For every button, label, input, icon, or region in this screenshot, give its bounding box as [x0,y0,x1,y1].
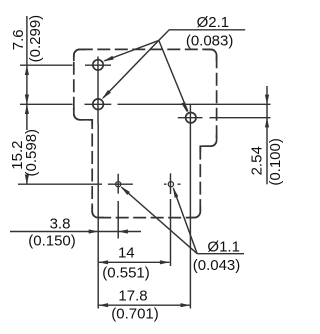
arrow 3.8 right (left-pointing) [118,229,128,233]
outline corner: top-right [205,49,217,61]
relay body outline (dashed) [74,49,217,217]
centerline row small holes [18,183,181,185]
hole H4 (small, left) [116,182,121,187]
arrow 15.2 top (up) [25,104,29,114]
svg-text:(0.299): (0.299) [27,15,44,63]
svg-text:14: 14 [118,244,135,261]
svg-text:(0.598): (0.598) [23,129,40,177]
leader underline Ø1.1 [197,253,244,255]
hole H2 (big, mid-left) [93,99,104,110]
arrow 7.6 top (up) [25,65,29,75]
dim line 3.8 (bottom) [10,231,141,233]
svg-text:7.6: 7.6 [10,29,27,50]
leader arrowhead at H3 [181,102,187,113]
extension column big holes for bottom dims [97,124,99,309]
leader arrowhead at H5 [173,187,179,198]
centerline column H1-H2 [97,57,99,125]
leader line to H1 [105,40,159,60]
dim line 17.8 (bottom) [98,304,190,306]
arrow 14 right [160,260,170,264]
centerline row H1 [20,64,111,66]
arrow 2.54 top (down) [265,95,269,105]
dim line 2.54 (right, vertical) [266,86,268,184]
outline corner: top-left [74,49,86,61]
arrow 3.8 left (right-pointing) [89,229,99,233]
svg-text:(0.150): (0.150) [28,233,76,250]
svg-text:(0.043): (0.043) [193,257,241,274]
centerline column H3 / extension 17.8 [189,104,191,308]
outline corner: right step [200,135,216,153]
centerline column H5 / extension 14 [170,173,172,266]
svg-text:2.54: 2.54 [249,146,266,175]
arrow 7.6 bottom (down) [25,95,29,105]
centerline row H2 [20,103,271,105]
leader arrowhead at H2 [102,90,111,99]
outline corner: bottom-right [189,206,201,218]
leader line to H3 [159,40,188,111]
leader line to H5 [173,188,197,253]
dim line 15.2 (left, vertical with text gap) [26,104,28,184]
leader line to H4 [122,187,198,254]
dim line 14 (bottom) [98,261,169,263]
arrow 2.54 bottom (up) [265,118,269,128]
svg-text:(0.551): (0.551) [102,264,150,281]
hole H1 (big, top-left) [93,60,103,70]
arrow 17.8 right [181,303,191,307]
hole H3 (big, right) [186,113,196,123]
hole H5 (small, right) [168,182,173,187]
dim line 7.6 (left, vertical) [26,16,28,104]
svg-text:17.8: 17.8 [118,288,147,305]
leader arrowhead at H4 [120,186,130,195]
arrow 14 left [98,260,108,264]
arrow 17.8 left [98,303,108,307]
arrowheads [25,56,269,308]
outline corner: bottom-left [92,206,104,218]
leader underline Ø2.1 [159,30,245,41]
centerline row H3 [178,117,271,119]
outline corner: left step [74,108,92,126]
leader arrowhead at H1 [103,56,114,62]
leader line to H2 [103,40,159,98]
centerline column H4 / extension 3.8 [117,174,119,239]
svg-text:3.8: 3.8 [50,216,71,233]
svg-text:(0.100): (0.100) [267,138,284,186]
svg-text:Ø2.1: Ø2.1 [197,14,230,31]
svg-text:(0.701): (0.701) [111,306,159,323]
svg-text:Ø1.1: Ø1.1 [207,238,240,255]
svg-text:(0.083): (0.083) [186,33,234,50]
arrow 15.2 bottom (down) [25,175,29,185]
dimension texts [9,14,284,323]
